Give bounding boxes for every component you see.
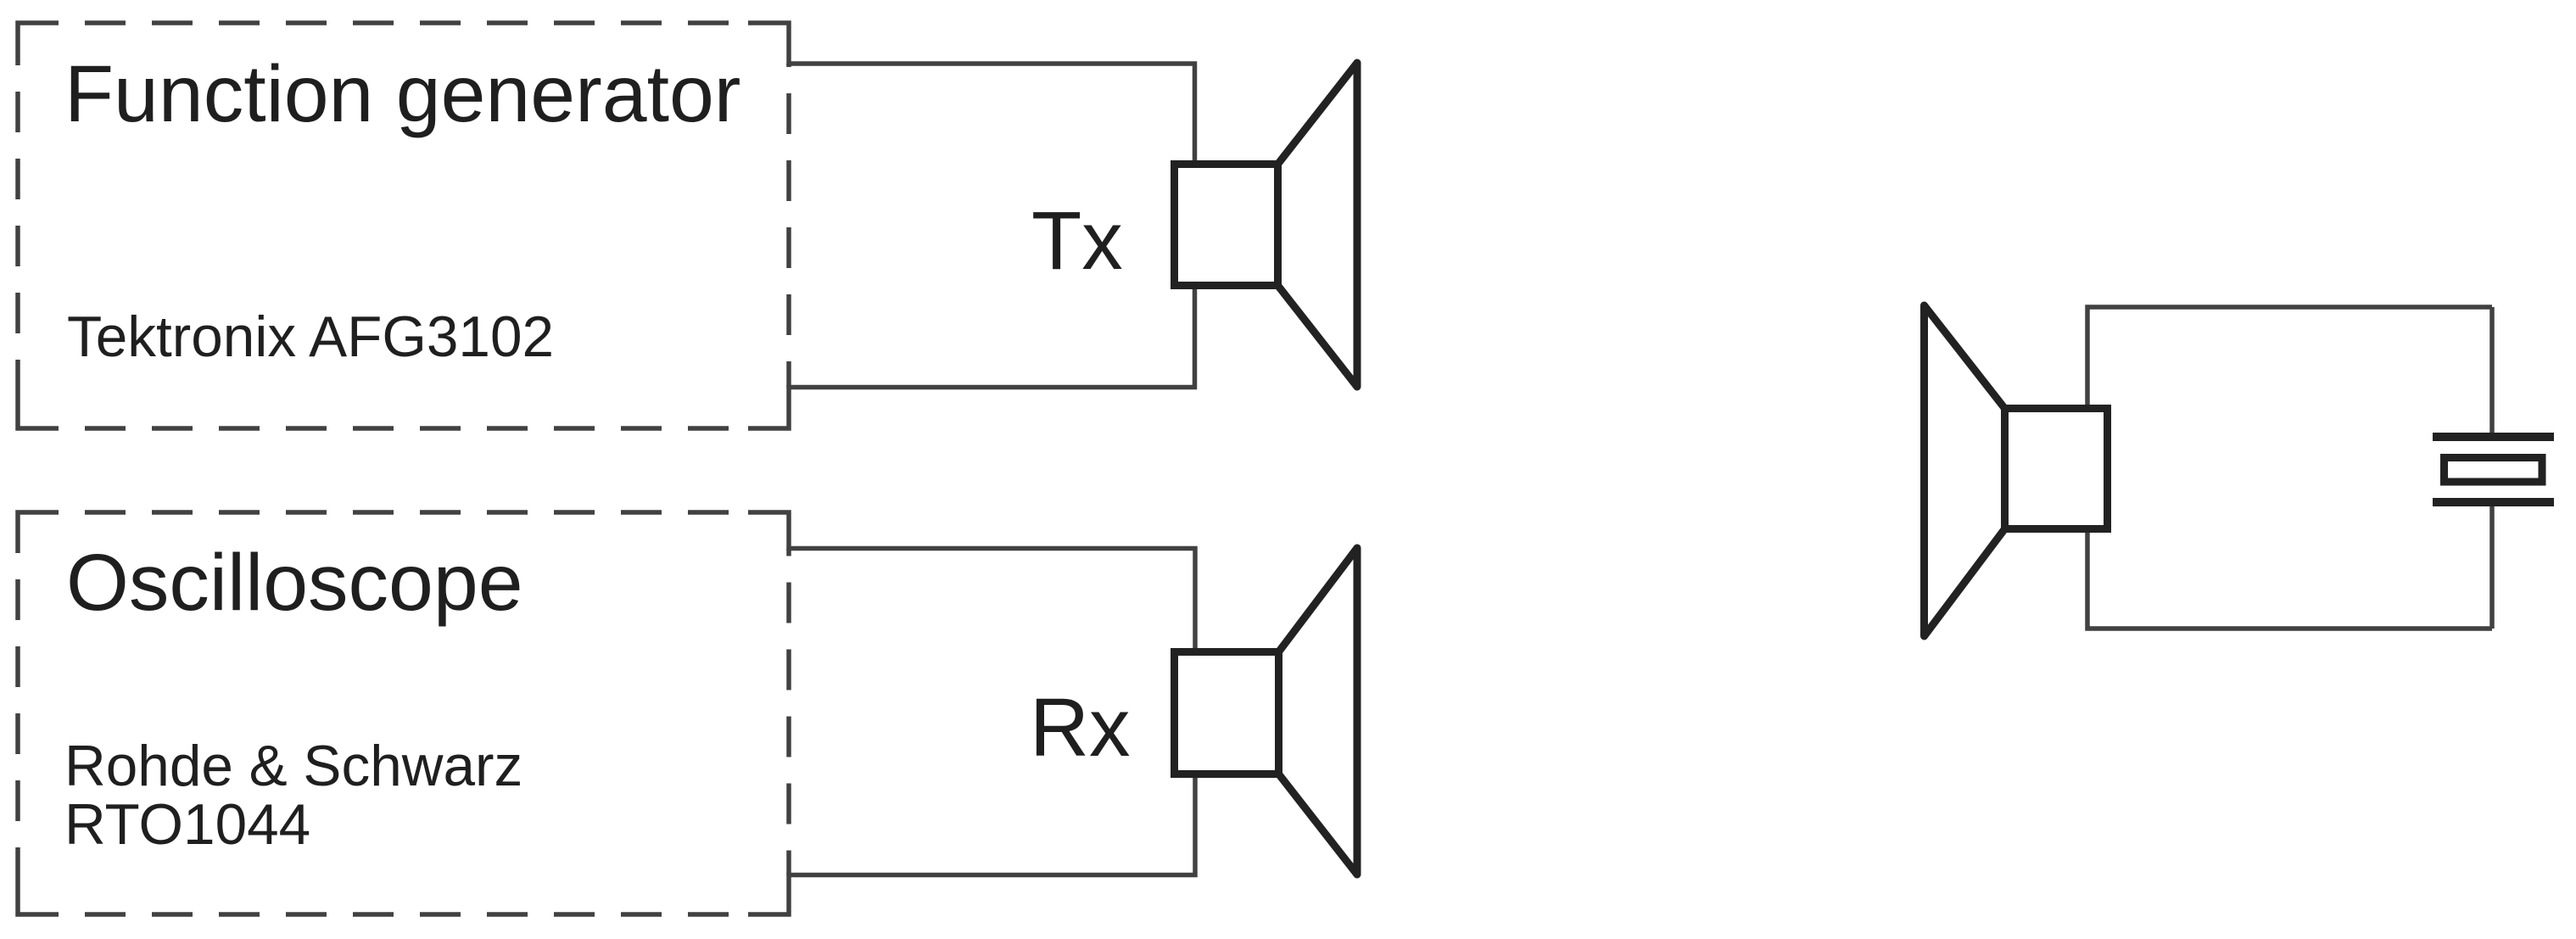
svg-text:RTO1044: RTO1044: [64, 793, 310, 857]
receiver transducer body (square): [2005, 409, 2108, 529]
wire loop: receiver circuit box: [2087, 307, 2492, 629]
wire: oscilloscope return to Rx (lower): [748, 763, 1195, 914]
svg-text:Rohde & Schwarz: Rohde & Schwarz: [64, 735, 522, 798]
svg-text:Function generator: Function generator: [64, 49, 740, 139]
transducer Tx body (square): [1175, 165, 1278, 286]
piezo element X1: bottom plate: [2433, 498, 2554, 506]
wire: function generator output to Tx (upper): [748, 23, 1195, 178]
svg-text:Oscilloscope: Oscilloscope: [66, 538, 523, 628]
transducer Tx horn: [1278, 63, 1358, 387]
svg-text:Tektronix AFG3102: Tektronix AFG3102: [67, 305, 554, 369]
piezo element X1: top plate: [2433, 433, 2554, 441]
dashed box U2 Oscilloscope: [18, 512, 789, 914]
wire: oscilloscope input from Rx (upper): [748, 512, 1195, 670]
piezo element X1: crystal body: [2445, 458, 2543, 483]
svg-text:Tx: Tx: [1031, 194, 1123, 287]
svg-text:Rx: Rx: [1030, 681, 1131, 774]
dashed box U1 Function generator: [18, 23, 789, 428]
transducer Rx body (square): [1175, 652, 1279, 774]
wire: function generator return from Tx (lower): [748, 280, 1195, 428]
receiver transducer horn: [1925, 305, 2005, 636]
transducer Rx horn: [1279, 548, 1358, 875]
